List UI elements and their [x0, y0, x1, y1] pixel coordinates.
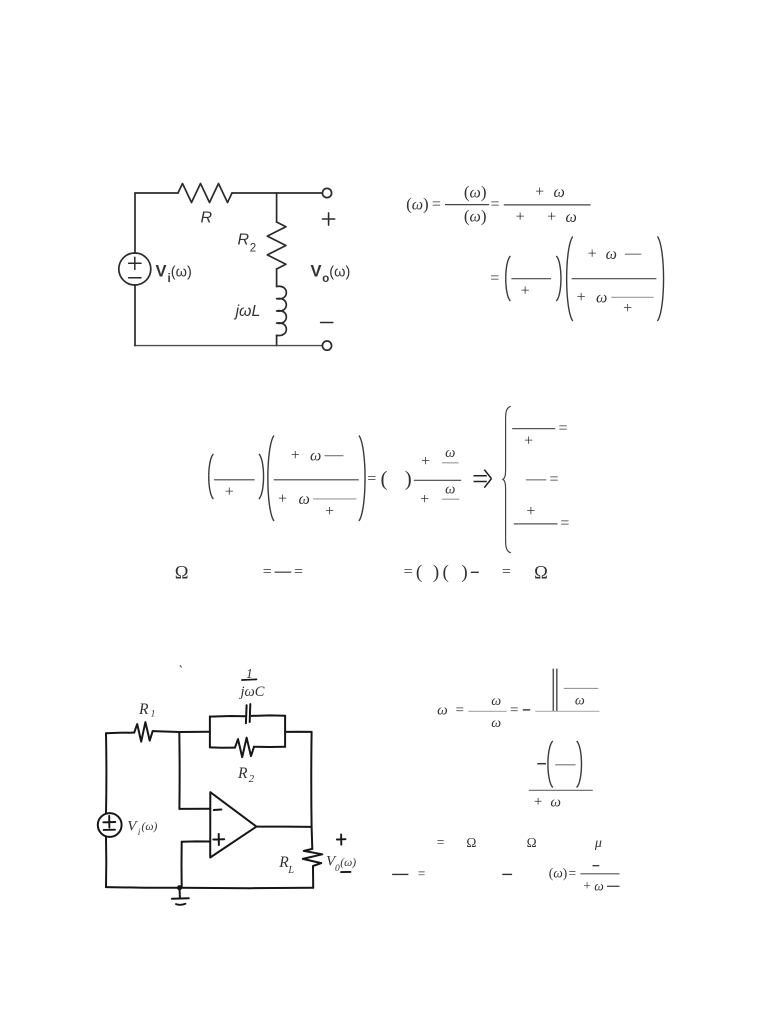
wire plus input down to ground rail [181, 842, 183, 888]
brace item3 + bar equals [514, 503, 570, 532]
mid small frac denominator + w/bar [420, 481, 459, 508]
svg-text:0: 0 [335, 864, 340, 874]
svg-text:ω: ω [437, 702, 448, 718]
svg-text:+: + [278, 490, 287, 507]
svg-text:(ω): (ω) [142, 821, 158, 833]
svg-text:+: + [547, 208, 556, 225]
br4 dash 2 [502, 873, 512, 875]
label R2 [237, 765, 255, 785]
svg-text:Ω: Ω [466, 835, 476, 850]
svg-text:o: o [322, 273, 329, 285]
eq2 denominator + w bar + [577, 289, 654, 317]
svg-text:ω: ω [310, 448, 321, 465]
inductor jwL [277, 286, 287, 335]
svg-text:+: + [534, 794, 542, 810]
br1 fraction w/w [468, 694, 506, 731]
feedback box right side [284, 716, 286, 747]
eq2 first factor bar [511, 278, 551, 280]
output terminal bottom [322, 341, 331, 350]
svg-text:+: + [225, 483, 234, 500]
mid paren left small-tall [209, 454, 214, 499]
label Vi(w) [127, 819, 157, 839]
mid paren right big [359, 436, 365, 522]
br2 minus paren dash paren [537, 741, 581, 788]
ground bar 1 [172, 897, 189, 899]
svg-text:ω: ω [445, 445, 455, 461]
svg-text:=: = [549, 471, 558, 488]
svg-text:+: + [583, 878, 591, 893]
mid paren right small-tall [259, 454, 264, 499]
eq1 fraction bar [445, 204, 489, 206]
svg-text:+: + [420, 491, 429, 508]
wire top-right segment [232, 192, 322, 194]
svg-text:+: + [535, 183, 544, 200]
wire R1 to junction [153, 730, 210, 733]
svg-text:1: 1 [151, 710, 156, 720]
eq2 paren right big [657, 237, 663, 322]
svg-text:ω: ω [606, 246, 617, 263]
source Vi circle [119, 253, 151, 285]
wire RL to bottom [312, 866, 314, 888]
svg-text:R: R [138, 701, 149, 718]
wire junction down to minus input [178, 732, 180, 809]
svg-text:(ω): (ω) [464, 183, 487, 202]
svg-text:ω: ω [491, 694, 501, 709]
wire right vertical down [310, 732, 312, 827]
ohm row = dash = [263, 563, 303, 580]
svg-text:ω: ω [299, 491, 310, 508]
ohm row Omega 2 [534, 564, 548, 584]
wire bottom rail [106, 887, 313, 888]
label R [201, 210, 213, 227]
wire left lower [134, 285, 136, 346]
svg-text:=: = [502, 563, 511, 580]
svg-text:(: ( [381, 467, 388, 491]
svg-text:Ω: Ω [534, 564, 548, 584]
svg-text:R: R [237, 765, 248, 782]
eq2 equals [490, 270, 499, 287]
svg-text:+: + [291, 447, 300, 464]
br4 fraction [580, 866, 619, 894]
svg-text:(: ( [416, 562, 422, 583]
label Vo(w) [326, 853, 356, 874]
svg-text:+: + [524, 433, 533, 450]
br3 = Omega Omega mu [437, 835, 602, 852]
svg-text:(ω): (ω) [464, 207, 487, 226]
svg-text:(ω): (ω) [406, 195, 429, 214]
br1 overline w [564, 688, 599, 708]
feedback box top side with capacitor gap [210, 715, 285, 716]
eq1 rhs denominator + + w [516, 208, 577, 226]
svg-text:2: 2 [249, 773, 255, 785]
svg-text:+: + [577, 289, 586, 306]
svg-text:(ω): (ω) [171, 265, 192, 281]
svg-text:=: = [455, 703, 463, 719]
wire left vertical lower [105, 837, 107, 887]
svg-text:μ: μ [594, 836, 602, 851]
br1 long bar [535, 710, 599, 712]
svg-text:jωC: jωC [239, 684, 265, 700]
svg-text:ω: ω [566, 209, 577, 226]
eq1 second equals [490, 196, 499, 213]
wire between R2 and inductor [276, 269, 278, 287]
resistor RL zigzag [303, 849, 323, 866]
op-amp plus sign [213, 834, 224, 845]
br4 (w)= fraction [549, 866, 576, 881]
wire plus input horizontal [182, 840, 211, 842]
wire top-left to R1 [106, 732, 134, 735]
eq2 paren left small-tall [506, 256, 511, 301]
mid first factor bar [214, 479, 255, 481]
svg-text:=: = [294, 563, 303, 580]
feedback box bottom side right [254, 746, 285, 748]
ohm row Omega 1 [175, 564, 189, 584]
svg-text:=: = [558, 420, 567, 437]
br2 main bar [529, 789, 593, 791]
feedback box left side [209, 716, 211, 747]
label R1 [138, 701, 155, 720]
br2 denominator + w [534, 794, 561, 811]
label R2 [238, 232, 257, 255]
resistor R1 [134, 722, 153, 742]
svg-text:): ) [405, 467, 412, 491]
svg-text:ω: ω [491, 716, 501, 731]
svg-text:2: 2 [250, 243, 256, 255]
br4 dash = [392, 866, 425, 881]
ground stem [179, 888, 181, 898]
ohm row = ( )( ) - = [404, 562, 511, 583]
eq1 rhs numerator + w [535, 183, 565, 201]
mid numerator + w dash [291, 447, 344, 465]
svg-text:=: = [490, 196, 499, 213]
svg-text:R: R [201, 210, 213, 227]
brace item2 bar equals [526, 471, 559, 488]
svg-text:=: = [432, 196, 441, 213]
mid paren left big [268, 436, 274, 522]
wire bottom [135, 345, 322, 347]
op-amp minus sign [214, 809, 222, 812]
output minus sign [321, 322, 333, 324]
svg-text:ω: ω [445, 481, 455, 497]
mid brace [503, 406, 511, 553]
source plus sign [129, 257, 141, 269]
resistor R [178, 184, 232, 203]
label RL [278, 854, 294, 876]
svg-text:ω: ω [550, 795, 561, 811]
eq1 lhs (w)= [406, 195, 441, 214]
SECTION: bottom-right equations [392, 669, 619, 894]
eq1 frac numerator (w) [464, 183, 487, 202]
svg-text:ω: ω [596, 289, 607, 306]
eq2 paren right small-tall [556, 256, 561, 301]
svg-text:=: = [437, 835, 445, 850]
mid small frac numerator + w/bar [421, 445, 458, 470]
svg-text:R: R [238, 232, 250, 249]
mid implies arrow [474, 470, 492, 488]
brace item1 bar + equals [512, 420, 567, 450]
label Vi(w) [156, 263, 192, 286]
mid denominator + w bar + [278, 490, 356, 520]
br1 lhs w = [437, 702, 464, 718]
svg-text:+: + [325, 503, 334, 520]
svg-text:V: V [311, 263, 322, 281]
svg-text:Ω: Ω [527, 835, 537, 850]
svg-text:V: V [156, 263, 167, 281]
eq2 main bar [572, 278, 657, 280]
svg-text:): ) [461, 562, 467, 583]
source minus sign [129, 277, 141, 279]
wire output node to RL [311, 827, 314, 849]
label Vo(w) [311, 263, 351, 286]
SECTION: omega row [175, 562, 548, 584]
svg-text:+: + [526, 503, 535, 520]
svg-text:=: = [404, 563, 413, 580]
mid open paren pair [381, 467, 412, 491]
svg-text:=: = [367, 470, 376, 487]
resistor R2 zigzag [235, 738, 254, 758]
svg-text:=: = [263, 563, 272, 580]
capacitor C plates [246, 704, 250, 723]
svg-text:+: + [588, 246, 597, 263]
source Vi circle [98, 813, 122, 837]
svg-text:ω: ω [575, 694, 585, 709]
output terminal top [322, 188, 331, 197]
label jwL [234, 303, 261, 320]
SECTION: top-left printed circuit [119, 184, 350, 351]
svg-text:+: + [521, 283, 530, 300]
svg-text:(ω): (ω) [549, 866, 568, 881]
source plus-minus [103, 816, 115, 830]
eq2 numerator + w dash [588, 246, 642, 264]
svg-text:(ω): (ω) [340, 857, 356, 869]
output plus sign [323, 213, 335, 225]
svg-text:Ω: Ω [175, 564, 189, 584]
br1 = minus [510, 703, 530, 719]
svg-text:ω: ω [594, 878, 604, 893]
svg-text:i: i [138, 828, 141, 838]
mid first factor denominator + [225, 483, 234, 500]
resistor R2 [267, 222, 286, 269]
mid main bar [274, 479, 359, 481]
wire minus input horizontal [179, 808, 210, 810]
eq1 rhs bar [504, 204, 591, 206]
svg-text:=: = [418, 866, 426, 881]
wire left upper [134, 193, 136, 253]
op-amp U1 triangle [210, 792, 256, 857]
wire op-amp output [256, 826, 311, 828]
wire top-left segment [135, 192, 178, 194]
svg-text:=: = [560, 515, 569, 532]
eq1 frac denominator (w) [464, 207, 487, 226]
svg-text:=: = [568, 866, 576, 881]
node branch top wire [276, 193, 278, 222]
eq2 paren left big [567, 237, 573, 322]
svg-text:+: + [421, 453, 430, 470]
br1 parallel bars [553, 669, 557, 711]
svg-text:=: = [490, 270, 499, 287]
label 1/jwC [239, 666, 265, 700]
svg-text:+: + [623, 300, 632, 317]
svg-text:jωL: jωL [234, 303, 261, 320]
ground junction dot [177, 885, 182, 890]
svg-text:(ω): (ω) [329, 265, 350, 281]
feedback box bottom side left [210, 746, 235, 748]
svg-text:L: L [287, 865, 294, 876]
svg-text:+: + [516, 208, 525, 225]
SECTION: top-right equations [406, 183, 663, 321]
wire left vertical upper [105, 733, 107, 813]
mid equals [367, 470, 376, 487]
stray pen dot [180, 666, 181, 667]
label output plus [337, 834, 346, 844]
svg-text:(: ( [443, 562, 449, 583]
mid small fraction bar [414, 479, 461, 481]
svg-text:ω: ω [554, 184, 565, 201]
SECTION: middle equation row [209, 406, 570, 553]
wire below inductor [276, 335, 278, 345]
svg-text:): ) [433, 562, 439, 583]
SECTION: bottom-left hand-drawn circuit [98, 666, 356, 905]
wire box to right corner [285, 731, 312, 733]
label output minus [341, 871, 350, 873]
eq2 first factor denominator + [521, 283, 530, 300]
svg-text:=: = [510, 703, 518, 719]
ground squiggle [176, 904, 185, 905]
